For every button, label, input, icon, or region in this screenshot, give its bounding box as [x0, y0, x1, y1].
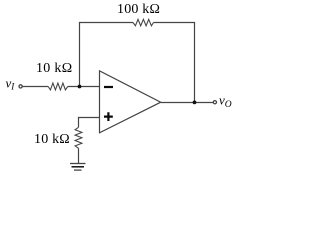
- wire feedback right vertical: [194, 23, 196, 103]
- wire resistor to minus input: [68, 86, 100, 88]
- op-amp U1 triangle: [100, 71, 161, 133]
- wire resistor to ground: [78, 148, 80, 163]
- node junction output: [193, 101, 197, 105]
- svg-text:10 kΩ: 10 kΩ: [34, 132, 70, 147]
- node junction inverting input: [78, 85, 82, 89]
- resistor R3 10k vertical zigzag: [75, 127, 82, 148]
- svg-text:10 kΩ: 10 kΩ: [36, 61, 72, 76]
- wire plus input vertical: [78, 117, 80, 127]
- terminal output: [213, 101, 216, 104]
- resistor R2 100k zigzag: [133, 19, 154, 26]
- wire output: [161, 102, 213, 104]
- wire input: [22, 86, 48, 88]
- wire feedback left vertical: [79, 23, 81, 87]
- svg-text:100 kΩ: 100 kΩ: [117, 2, 160, 17]
- wire top-right segment: [154, 22, 196, 24]
- wire plus input: [79, 117, 100, 119]
- op-amp plus sign: [104, 112, 113, 121]
- ground: [70, 164, 86, 171]
- wire top-left segment: [79, 22, 133, 24]
- terminal input: [19, 85, 22, 88]
- op-amp minus sign: [104, 86, 113, 88]
- resistor R1 10k zigzag: [48, 83, 68, 90]
